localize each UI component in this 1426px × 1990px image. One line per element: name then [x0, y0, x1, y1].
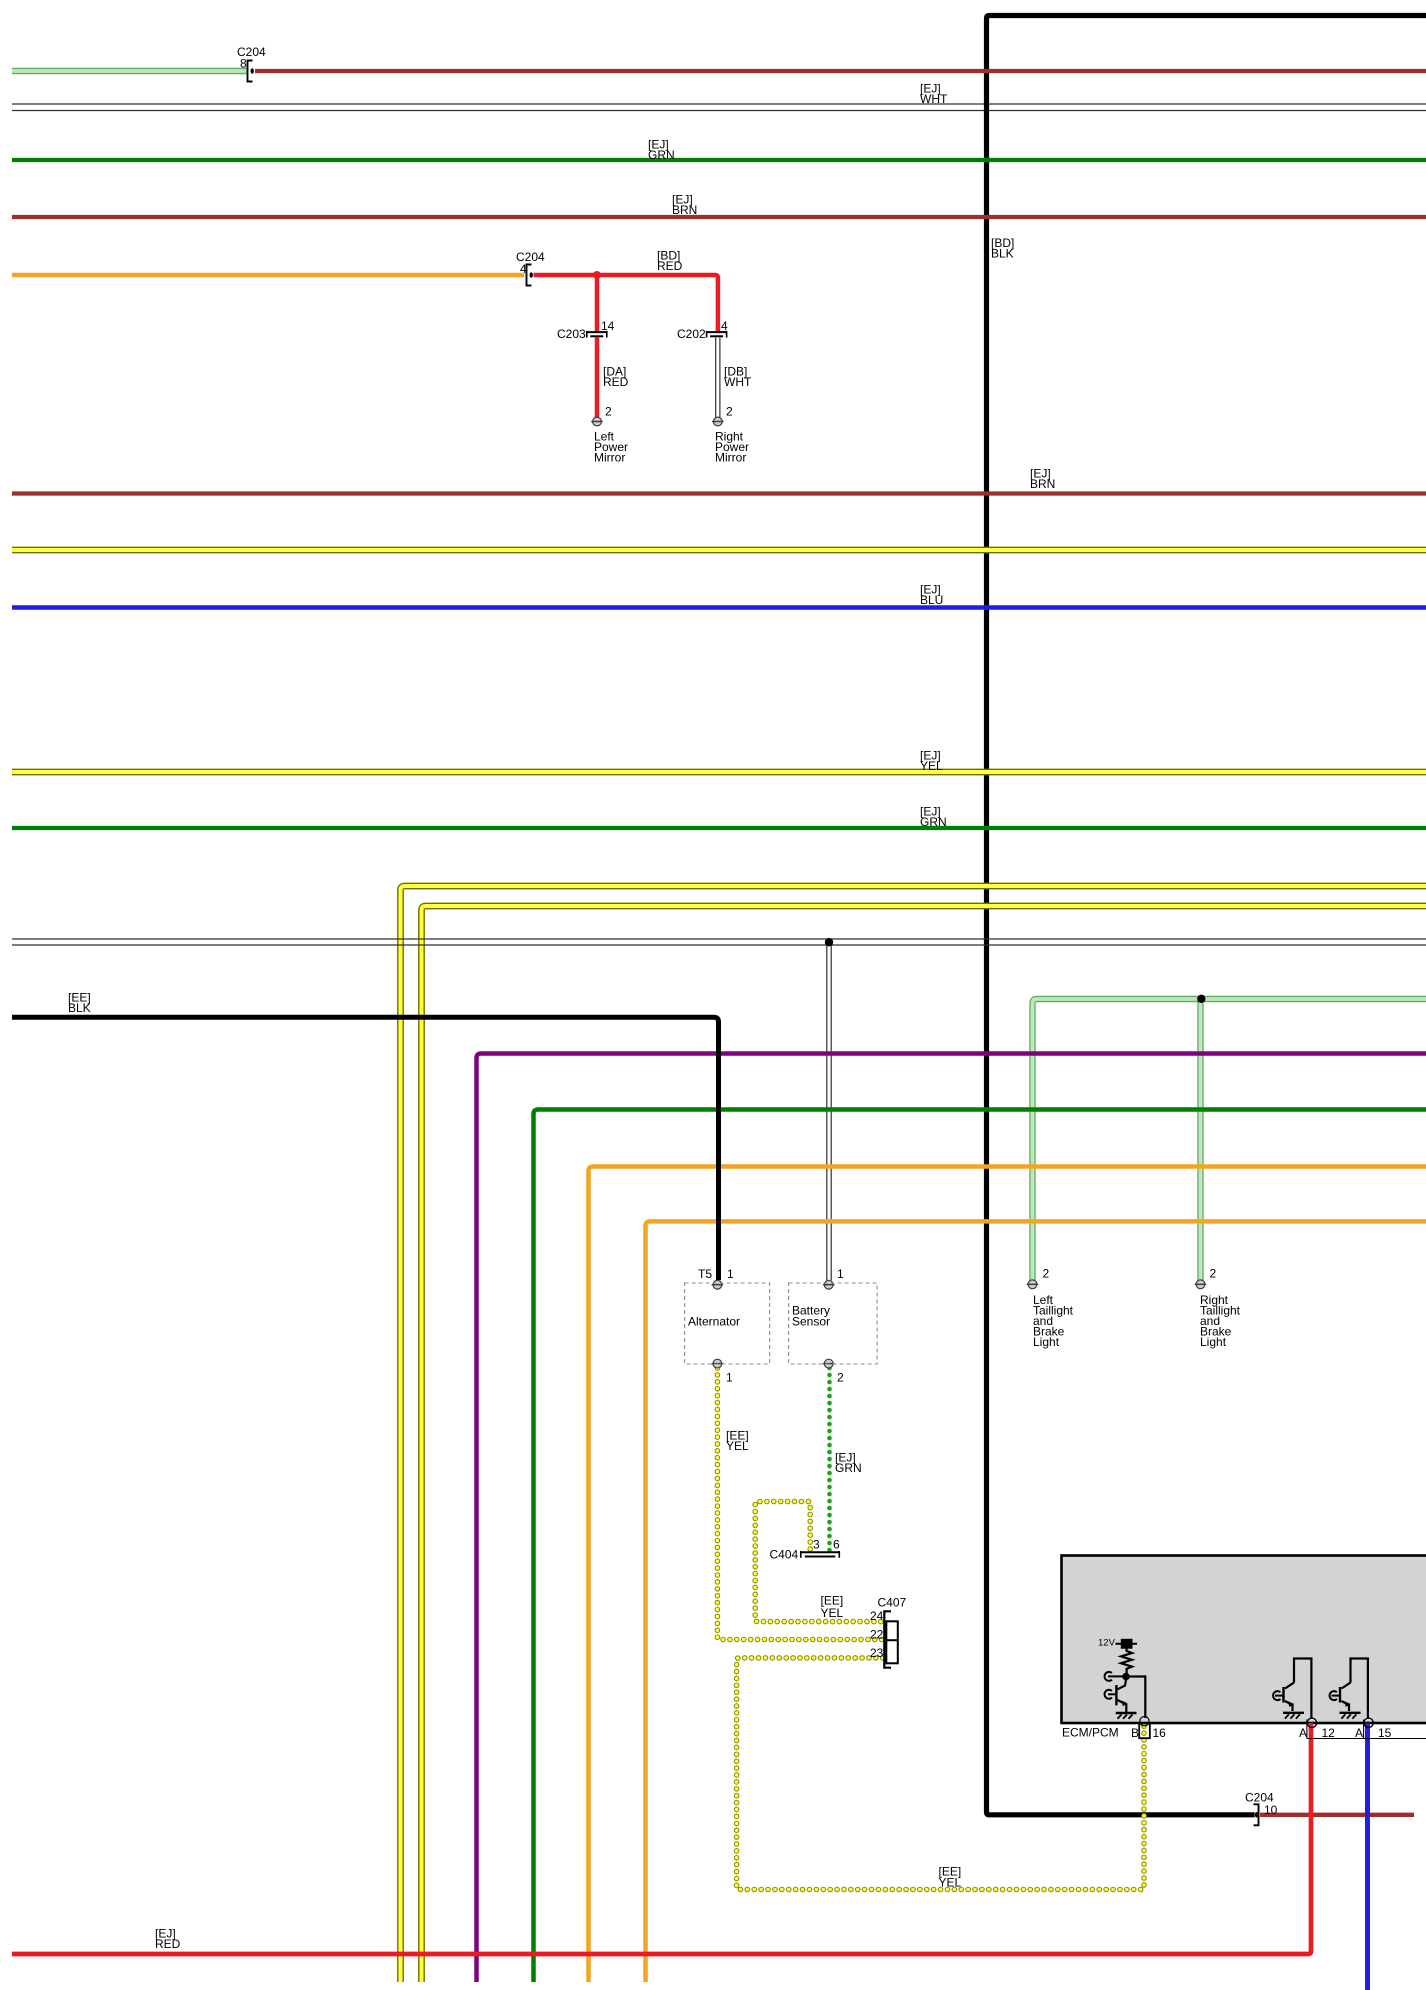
- svg-text:2: 2: [1210, 1267, 1217, 1281]
- svg-text:2: 2: [726, 405, 733, 419]
- svg-text:A: A: [1299, 1726, 1307, 1740]
- svg-text:YEL: YEL: [939, 1876, 962, 1890]
- svg-text:Sensor: Sensor: [792, 1315, 830, 1329]
- svg-text:22: 22: [870, 1628, 884, 1642]
- svg-text:BRN: BRN: [1030, 477, 1055, 491]
- svg-text:2: 2: [837, 1371, 844, 1385]
- svg-text:C407: C407: [878, 1596, 907, 1610]
- svg-text:1: 1: [726, 1371, 733, 1385]
- svg-text:RED: RED: [657, 259, 683, 273]
- svg-text:24: 24: [870, 1609, 884, 1623]
- svg-text:2: 2: [1043, 1267, 1050, 1281]
- svg-text:Mirror: Mirror: [715, 451, 746, 465]
- svg-text:16: 16: [1153, 1726, 1167, 1740]
- svg-text:RED: RED: [603, 375, 629, 389]
- svg-text:4: 4: [520, 262, 527, 276]
- svg-text:1: 1: [837, 1267, 844, 1281]
- svg-text:YEL: YEL: [821, 1606, 844, 1620]
- svg-text:4: 4: [721, 319, 728, 333]
- svg-text:15: 15: [1378, 1726, 1392, 1740]
- svg-text:6: 6: [833, 1538, 840, 1552]
- svg-text:YEL: YEL: [726, 1439, 749, 1453]
- svg-text:2: 2: [605, 405, 612, 419]
- svg-text:BRN: BRN: [672, 203, 697, 217]
- svg-text:WHT: WHT: [724, 375, 752, 389]
- svg-text:GRN: GRN: [835, 1461, 862, 1475]
- svg-text:3: 3: [813, 1538, 820, 1552]
- svg-text:Light: Light: [1033, 1335, 1060, 1349]
- svg-text:GRN: GRN: [920, 815, 947, 829]
- svg-text:12V: 12V: [1098, 1638, 1116, 1649]
- svg-text:8: 8: [240, 57, 247, 71]
- svg-text:WHT: WHT: [920, 92, 948, 106]
- svg-text:BLK: BLK: [68, 1001, 91, 1015]
- svg-text:Light: Light: [1200, 1335, 1227, 1349]
- svg-text:C202: C202: [677, 327, 706, 341]
- svg-text:A: A: [1355, 1726, 1363, 1740]
- svg-text:T5: T5: [698, 1267, 712, 1281]
- svg-text:C203: C203: [557, 327, 586, 341]
- svg-text:BLU: BLU: [920, 593, 943, 607]
- svg-text:C404: C404: [770, 1548, 799, 1562]
- svg-text:23: 23: [870, 1646, 884, 1660]
- svg-text:B: B: [1131, 1726, 1139, 1740]
- svg-text:YEL: YEL: [920, 759, 943, 773]
- svg-text:BLK: BLK: [991, 247, 1014, 261]
- svg-text:1: 1: [727, 1267, 734, 1281]
- svg-text:ECM/PCM: ECM/PCM: [1062, 1726, 1119, 1740]
- svg-text:12: 12: [1322, 1726, 1336, 1740]
- svg-text:10: 10: [1264, 1803, 1278, 1817]
- svg-text:GRN: GRN: [648, 148, 675, 162]
- svg-text:RED: RED: [155, 1937, 181, 1951]
- svg-text:Mirror: Mirror: [594, 451, 625, 465]
- svg-text:Alternator: Alternator: [688, 1315, 740, 1329]
- svg-text:14: 14: [601, 319, 615, 333]
